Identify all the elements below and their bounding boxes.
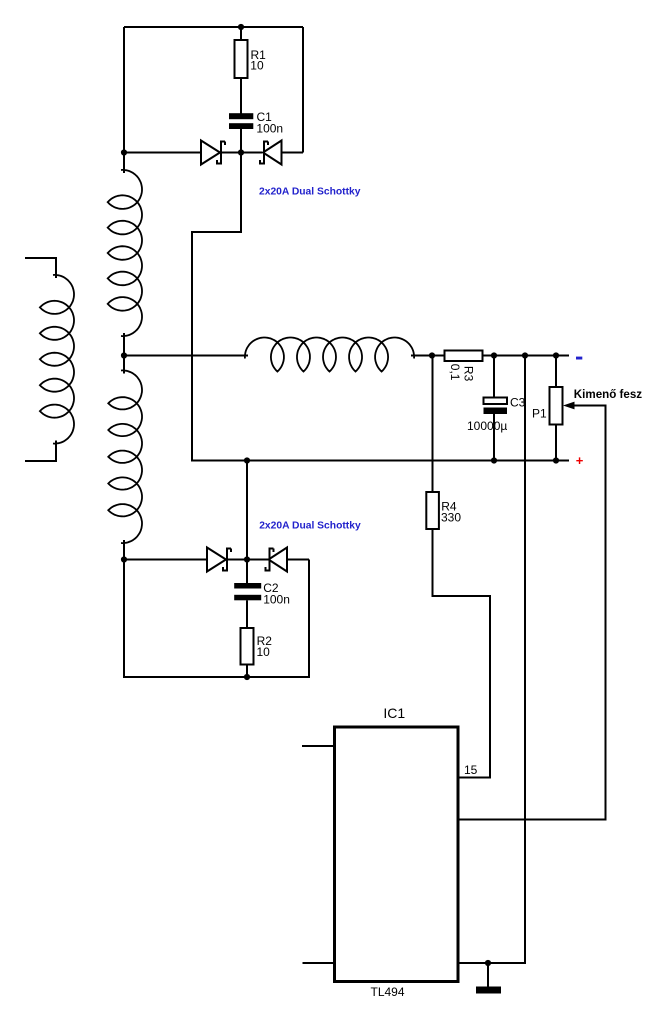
svg-text:TL494: TL494: [371, 985, 405, 999]
svg-text:15: 15: [464, 763, 478, 777]
svg-text:10: 10: [250, 59, 264, 73]
svg-text:100n: 100n: [256, 121, 283, 135]
svg-text:IC1: IC1: [383, 705, 405, 721]
svg-text:10000µ: 10000µ: [467, 419, 507, 433]
svg-text:330: 330: [441, 511, 461, 525]
svg-text:+: +: [576, 453, 584, 468]
svg-text:10: 10: [257, 645, 271, 659]
svg-text:R3: R3: [462, 366, 476, 382]
svg-text:0,1: 0,1: [448, 364, 462, 381]
svg-text:P1: P1: [532, 407, 547, 421]
svg-text:C3: C3: [510, 395, 526, 409]
svg-text:2x20A Dual Schottky: 2x20A Dual Schottky: [259, 520, 361, 531]
svg-text:2x20A Dual Schottky: 2x20A Dual Schottky: [259, 187, 361, 198]
svg-text:Kimenő fesz: Kimenő fesz: [574, 388, 642, 401]
svg-text:100n: 100n: [263, 593, 290, 607]
